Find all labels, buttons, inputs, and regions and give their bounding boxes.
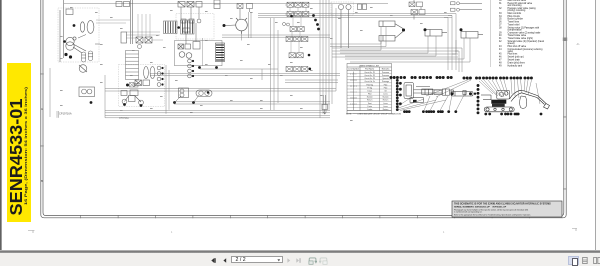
svg-text:30: 30: [499, 0, 502, 2]
svg-text:Pilot circuits: Pilot circuits: [508, 15, 521, 18]
callout dot column x397: [396, 79, 402, 111]
window left dark edge: [0, 0, 2, 253]
junction dot CYL3 cap: [424, 28, 427, 31]
svg-text:-C-: -C-: [576, 42, 580, 46]
svg-text:45: 45: [499, 54, 502, 56]
view mode icon: facing: [593, 257, 600, 264]
svg-text:OT9716A: OT9716A: [119, 117, 129, 120]
junction dot J1: [73, 24, 76, 27]
svg-text:Suction: Suction: [367, 96, 373, 99]
hairline horizontals valve feed: [96, 20, 163, 40]
ladder lower X cluster: [130, 83, 139, 88]
svg-text:Crossover valve (2) swing brak: Crossover valve (2) swing brake: [508, 31, 542, 34]
valve row VR3: [290, 27, 304, 32]
vertical stub pair x57: [57, 111, 59, 118]
junction dot J5: [223, 24, 226, 27]
svg-text:in numbered with corresponding: in numbered with corresponding set.: [454, 211, 483, 214]
toolbar: page number box: [231, 256, 283, 262]
wire lower cross line: [200, 69, 278, 80]
junction dot J8: [90, 101, 93, 104]
pump group P1 supply line: [60, 0, 64, 62]
terminal valve with arrow: [322, 95, 328, 114]
frame zone tick left y74: [40, 73, 44, 76]
svg-text:36: 36: [499, 22, 502, 24]
svg-text:Drain: Drain: [368, 106, 372, 108]
svg-text:Return: Return: [383, 99, 388, 102]
foot circle R: [139, 100, 144, 105]
junction dot J9: [173, 101, 176, 104]
excavator body outline: [481, 90, 510, 99]
accumulator ACC1 oval: [80, 22, 84, 32]
swing motor feed verticals: [242, 12, 252, 41]
svg-text:Suction: Suction: [383, 96, 389, 99]
svg-text:NOTE: ─── LINES INDICATE CIRC: NOTE: ─── LINES INDICATE CIRCUIT GROUP C…: [346, 113, 401, 116]
wire bundle G: [105, 110, 330, 118]
wire bundle A horizontals: [258, 14, 452, 18]
excavator dark strip 1: [491, 100, 506, 104]
cylinder CYL1: [379, 21, 403, 29]
svg-text:37: 37: [499, 25, 502, 27]
wire bundle D: [285, 80, 338, 82]
svg-text:40: 40: [499, 35, 502, 37]
stack junction dots: [312, 14, 320, 30]
svg-text:33: 33: [499, 13, 502, 15]
valve V1 small rect: [66, 9, 73, 15]
svg-text:Pilot lines: Pilot lines: [508, 53, 519, 56]
svg-text:34: 34: [499, 16, 502, 18]
frame zone tick right y117: [563, 116, 567, 119]
fold mark lower-right: [572, 229, 577, 232]
junction dot J4: [69, 55, 72, 58]
svg-text:Swivel drain: Swivel drain: [508, 59, 521, 62]
spool column SC1 (dark): [216, 43, 225, 62]
svg-text:Pilot shut off valve: Pilot shut off valve: [508, 45, 527, 48]
accumulator ACC2 oval: [87, 21, 94, 34]
callout dot row (carbody bottom): [403, 110, 457, 113]
valve group V5 rects: [178, 0, 220, 9]
svg-text:Main controls: Main controls: [508, 12, 523, 15]
port circle column x190: [188, 59, 194, 78]
svg-text:Main control valve: Main control valve: [508, 0, 527, 2]
lines symbol table grid: [347, 64, 392, 114]
svg-text:B: B: [41, 179, 43, 183]
svg-text:Remarks: Remarks: [382, 68, 390, 71]
carbody leader fan: [398, 79, 471, 111]
frame zone tick left y146: [40, 145, 44, 148]
svg-text:Drain (pilot) lines: Drain (pilot) lines: [508, 61, 526, 64]
VR5 end dot: [308, 54, 311, 57]
svg-text:Circuit Gr. Dr: Circuit Gr. Dr: [365, 80, 376, 83]
cylinder CYL4: [461, 32, 483, 39]
foot circle L: [122, 99, 127, 104]
valve bank boundary box: [175, 41, 223, 66]
svg-text:44: 44: [499, 49, 502, 51]
svg-text:Pilot: Pilot: [384, 86, 388, 89]
toolbar: prev-page button: [223, 258, 227, 263]
valve bank VB1 rect row: [178, 42, 200, 50]
wire verticals x261-268: [271, 18, 279, 110]
bottom toolbar: [0, 253, 600, 266]
svg-text:LINES SYMBOL LIST: LINES SYMBOL LIST: [359, 65, 380, 67]
small rect pair right: [358, 4, 367, 10]
svg-text:Line Symbol: Line Symbol: [348, 69, 359, 71]
tiny parts row 1: [451, 2, 483, 5]
svg-text:priority) mounting: priority) mounting: [508, 9, 526, 12]
svg-text:SENR4533-01: SENR4533-01: [6, 98, 26, 215]
filter box F1: [79, 87, 95, 97]
wire J5 to M1: [226, 24, 236, 27]
svg-text:Travel relief: Travel relief: [508, 24, 520, 27]
excavator dark strip 2: [492, 104, 505, 107]
valve row VR1: [287, 2, 309, 7]
note box: [452, 201, 562, 217]
hairline verticals pump-to-valve: [138, 14, 150, 37]
striped rack R1: [164, 21, 178, 34]
frame bottom zone ticks: [81, 215, 530, 218]
svg-text:Circuit Gr. P1: Circuit Gr. P1: [364, 71, 375, 74]
toolbar: next-view icon (disabled): [319, 257, 328, 265]
relief circle below: [138, 45, 142, 49]
wire bundle B bend-down verticals: [452, 40, 462, 72]
wire bundle F: [174, 102, 330, 104]
circle pair left of stack: [283, 23, 290, 27]
carbody motor assembly: [422, 89, 466, 95]
svg-text:Pilot: Pilot: [384, 83, 388, 86]
wire bundle extra mid: [222, 35, 330, 37]
callout dot row (carbody top): [390, 76, 453, 79]
svg-text:THIS SCHEMATIC IS FOR THE E240: THIS SCHEMATIC IS FOR THE E240B AND EL24…: [454, 203, 551, 206]
svg-text:Swivel (pick up): Swivel (pick up): [508, 57, 524, 59]
wire vertical bundle center: [320, 0, 336, 118]
valve row VR4: [286, 37, 308, 42]
gauge circles: [338, 4, 351, 48]
foot dot L: [123, 103, 126, 106]
toolbar: first-page button: [211, 258, 217, 263]
carbody swivel frame: [404, 83, 414, 99]
svg-text:Lines: Lines: [383, 94, 387, 96]
frame zone tick right y189: [563, 188, 567, 191]
valve V6 two circles: [179, 88, 189, 98]
cylinder CYL2: [379, 32, 403, 42]
carbody lower gearbox: [410, 98, 424, 103]
junction dot J6: [198, 66, 201, 69]
rack junction dot: [177, 26, 180, 29]
svg-text:1: 1: [443, 231, 445, 234]
wire verticals x166-170: [166, 65, 169, 114]
junction dot CYL apex: [402, 29, 405, 32]
foot dot R: [140, 104, 143, 107]
cylinder CYL3: [425, 30, 447, 37]
wire top faint long line: [64, 3, 388, 5]
window right edge line: [595, 0, 596, 251]
pump section dashed boundary: [58, 8, 99, 62]
toolbar: next-page button (disabled): [287, 258, 291, 263]
junction dot J11: [207, 91, 209, 93]
manifold dashed boundary: [119, 65, 165, 107]
manifold valve X pair: [135, 80, 150, 86]
svg-text:Vent: Vent: [368, 102, 372, 105]
svg-text:Lines: Lines: [383, 106, 387, 108]
excavator leader fan: [479, 80, 540, 104]
stick assembly part (left of excavator): [451, 92, 473, 97]
svg-text:Pressure: Pressure: [382, 72, 389, 74]
swing box inner parts: [181, 7, 201, 44]
svg-text:Pr Sig: Pr Sig: [367, 87, 372, 89]
swing motor M1 circle: [236, 18, 248, 34]
svg-text:Circuit Gr. P2: Circuit Gr. P2: [364, 74, 375, 77]
relief valve RV1 row: [136, 37, 152, 43]
svg-text:47: 47: [499, 60, 502, 62]
junction dot J2: [63, 40, 66, 43]
motor pill M2: [196, 90, 212, 97]
leader lines to J9 J10: [175, 95, 200, 103]
svg-text:48: 48: [499, 62, 502, 64]
carbody gearbox dark fill: [413, 100, 417, 103]
excavator hanging bucket: [520, 96, 527, 108]
table line samples: [350, 72, 357, 111]
svg-text:Return: Return: [367, 99, 372, 102]
svg-text:Bucket cylinder: Bucket cylinder: [508, 18, 524, 21]
valve bank center line: [202, 38, 204, 66]
view mode icon: single page (active): [568, 256, 579, 265]
excavator track: [484, 107, 514, 112]
yellow banner: [7, 63, 31, 222]
svg-text:42: 42: [499, 41, 502, 43]
svg-text:Travel lines: Travel lines: [508, 21, 521, 24]
valve pair above swing motor: [237, 4, 253, 20]
fold mark lower-left: [28, 231, 35, 234]
valve V4 tall rect: [121, 32, 127, 43]
toolbar: page box dropdown tick: [277, 259, 281, 262]
toolbar: last-page button (disabled): [296, 258, 302, 263]
carbody drive shaft lines: [414, 87, 443, 94]
svg-text:Pilot Sig: Pilot Sig: [366, 83, 373, 86]
svg-text:SERIAL NUMBERS: 5WG00251-UP: SERIAL NUMBERS: 5WG00251-UP 7DF00251-UP: [454, 206, 507, 209]
striped rack R2: [181, 20, 195, 34]
junction dot J7: [215, 66, 218, 69]
callout dot column x478: [477, 84, 480, 114]
svg-text:Drain: Drain: [368, 91, 372, 93]
drawing frame (double border): [41, 0, 566, 218]
cylinder feed lines: [330, 27, 470, 63]
wire bundle B horizontals: [332, 48, 458, 57]
svg-text:39: 39: [499, 32, 502, 34]
excavator boom and stick: [510, 90, 550, 109]
svg-text:valve: valve: [508, 51, 514, 53]
valve V3 pair top: [116, 0, 132, 44]
wire bundle A bend-down verticals: [444, 14, 456, 71]
svg-text:Passage: Passage: [382, 81, 389, 83]
VR6 end dot: [309, 68, 312, 71]
svg-text:16 Page, (Dimension: 54 inches: 16 Page, (Dimension: 54 inches x 36 inch…: [24, 86, 28, 205]
svg-text:32: 32: [499, 8, 502, 10]
svg-text:compensation: compensation: [508, 28, 523, 31]
valve cluster top-right: [409, 0, 425, 20]
junction dot J10: [192, 101, 195, 104]
valve V2 accumulator pills: [78, 35, 100, 63]
wire vertical left pair: [50, 68, 105, 118]
valve row VR6: [286, 67, 308, 72]
manifold lower rects: [121, 90, 138, 96]
svg-text:46: 46: [499, 57, 502, 59]
svg-text:Cooler: Cooler: [367, 109, 373, 111]
svg-text:41: 41: [499, 38, 502, 40]
svg-text:Travel brake valve: Travel brake valve: [508, 34, 527, 37]
junction dot J3: [64, 53, 67, 56]
svg-text:Part Name: Part Name: [365, 68, 374, 71]
svg-text:Circuit Gr. P3: Circuit Gr. P3: [364, 77, 375, 80]
legend parts list: [499, 0, 545, 67]
manifold port circles with dots: [157, 66, 163, 86]
wire bundle C: [150, 74, 340, 76]
callout dot row (excavator top): [463, 77, 533, 80]
svg-text:Travel brake valve (right): Travel brake valve (right): [508, 37, 534, 40]
svg-text:speed): speed): [508, 43, 515, 45]
svg-text:and mounting: and mounting: [508, 4, 523, 7]
svg-text:Pilot: Pilot: [368, 93, 372, 96]
tiny parts row 2: [451, 8, 483, 11]
svg-text:CP19716A: CP19716A: [59, 112, 72, 116]
svg-text:1: 1: [171, 231, 173, 234]
ladder component: [126, 51, 139, 80]
pilot pump P2: [79, 65, 87, 73]
callout dot row (excavator bottom): [484, 113, 519, 116]
svg-text:Return: Return: [383, 108, 388, 111]
junction dot x403 y28: [402, 29, 405, 32]
valve bank VB1 circles: [179, 52, 192, 59]
frame zone tick right y39: [563, 38, 567, 42]
valve row VR5: [289, 53, 303, 58]
svg-text:Hydraulic tank: Hydraulic tank: [508, 64, 523, 67]
svg-text:38: 38: [499, 27, 502, 29]
wire bundle E: [105, 89, 336, 92]
table row text: [364, 71, 389, 111]
svg-text:Pressure: Pressure: [382, 75, 389, 77]
legend left rule: [489, 0, 491, 67]
svg-text:Refer to the appropriate Servi: Refer to the appropriate Service Manual …: [454, 213, 531, 216]
swing section dashed boundary: [176, 14, 214, 40]
annotation specks: [60, 7, 447, 121]
stack interconnect stubs: [285, 5, 306, 53]
valve row VR2: [287, 12, 309, 17]
svg-text:A: A: [41, 107, 43, 111]
junction dot CYL4 cap: [460, 28, 463, 31]
gauge dashed box: [331, 2, 354, 15]
callout dot right single: [540, 113, 543, 116]
toolbar separator line: [0, 250, 600, 253]
stick assembly dots: [451, 92, 477, 95]
svg-text:43: 43: [499, 46, 502, 48]
cooler part: [125, 96, 142, 103]
svg-text:Lines: Lines: [383, 103, 387, 105]
toolbar: prev-view icon: [308, 257, 317, 265]
svg-text:35: 35: [499, 19, 502, 21]
svg-text:31: 31: [499, 3, 502, 5]
manifold ovals: [144, 67, 155, 79]
table headers: [348, 68, 389, 71]
svg-text:49: 49: [499, 65, 502, 67]
svg-text:Operate: Operate: [382, 77, 389, 80]
pump P1 circle pair: [66, 37, 86, 53]
VR2 left dot: [290, 15, 293, 18]
view mode icon: continuous: [582, 257, 588, 264]
ladder junction dot: [126, 84, 129, 87]
